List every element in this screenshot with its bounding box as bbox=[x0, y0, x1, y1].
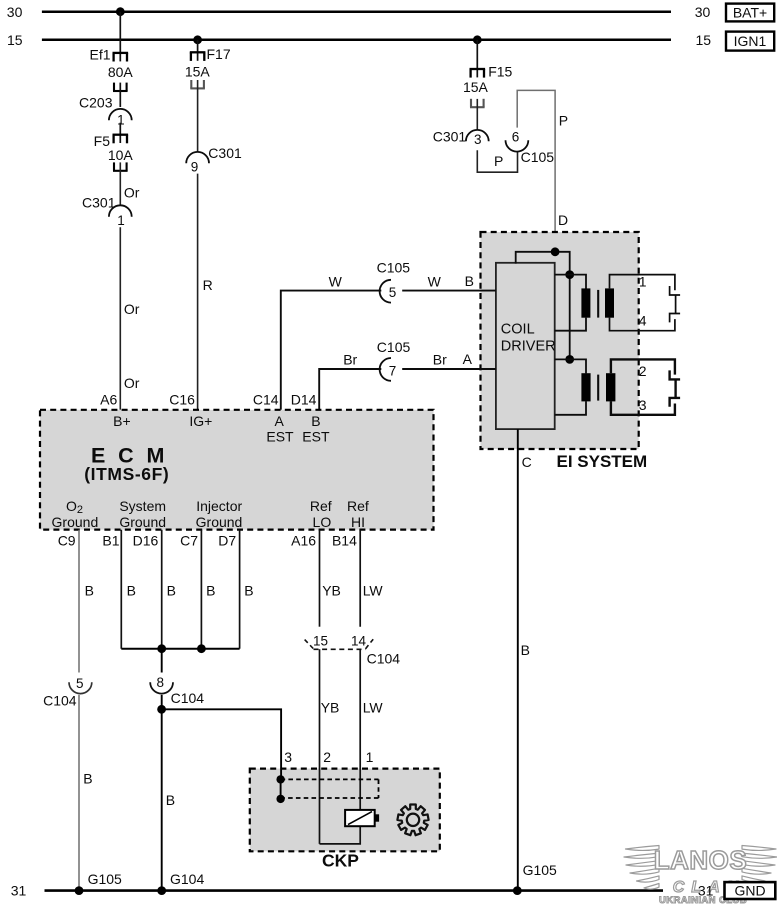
svg-text:3: 3 bbox=[639, 397, 647, 413]
svg-text:A: A bbox=[463, 351, 473, 367]
svg-text:LW: LW bbox=[363, 583, 384, 599]
svg-text:B14: B14 bbox=[332, 532, 357, 548]
svg-text:EST: EST bbox=[266, 429, 294, 445]
svg-text:B: B bbox=[167, 583, 176, 599]
node bus15-F15 junction bbox=[473, 35, 482, 44]
svg-text:9: 9 bbox=[191, 159, 199, 174]
svg-text:Br: Br bbox=[433, 352, 447, 368]
wire ground gather bus bbox=[121, 648, 239, 650]
svg-text:YB: YB bbox=[322, 583, 341, 599]
svg-text:YB: YB bbox=[321, 699, 340, 715]
svg-text:HI: HI bbox=[351, 514, 365, 530]
wire bus15 to fuse F17 bbox=[197, 40, 199, 61]
connector C104 pin 8 bbox=[150, 682, 173, 693]
svg-text:COIL: COIL bbox=[501, 322, 535, 338]
svg-text:Ground: Ground bbox=[196, 514, 243, 530]
svg-text:Injector: Injector bbox=[196, 498, 242, 514]
wire D7 injector ground, colour B bbox=[239, 530, 241, 649]
node bus15-F17 junction bbox=[193, 35, 202, 44]
node coil2 supply junction bbox=[565, 355, 574, 364]
svg-text:15: 15 bbox=[696, 32, 712, 48]
fuse F5 10A bbox=[113, 134, 129, 136]
svg-text:A: A bbox=[275, 413, 285, 429]
svg-text:B: B bbox=[83, 771, 92, 787]
svg-text:2: 2 bbox=[323, 749, 331, 765]
svg-text:Ref: Ref bbox=[347, 498, 369, 514]
wire C7 injector ground, colour B bbox=[200, 530, 202, 649]
svg-text:31: 31 bbox=[698, 883, 714, 899]
svg-text:Ef1: Ef1 bbox=[89, 47, 110, 63]
svg-text:C105: C105 bbox=[521, 149, 555, 165]
svg-text:30: 30 bbox=[695, 4, 711, 20]
svg-text:7: 7 bbox=[389, 363, 397, 378]
svg-text:P: P bbox=[559, 113, 568, 129]
svg-text:15A: 15A bbox=[185, 64, 211, 80]
svg-text:F15: F15 bbox=[488, 64, 512, 80]
svg-text:15A: 15A bbox=[463, 79, 489, 95]
svg-text:5: 5 bbox=[389, 285, 397, 300]
svg-text:4: 4 bbox=[639, 312, 647, 328]
svg-text:15: 15 bbox=[313, 633, 328, 648]
svg-text:C301: C301 bbox=[433, 128, 467, 144]
svg-text:C104: C104 bbox=[43, 692, 77, 708]
wire coil1 secondary to spark plug 1 bbox=[610, 275, 675, 291]
node coil1 supply junction bbox=[565, 270, 574, 279]
wire B EST: ECM D14 to C105-7, colour Br bbox=[319, 369, 381, 410]
svg-text:C105: C105 bbox=[377, 259, 411, 275]
svg-text:(ITMS-6F): (ITMS-6F) bbox=[84, 464, 169, 484]
svg-text:LO: LO bbox=[313, 514, 332, 530]
svg-text:System: System bbox=[119, 498, 166, 514]
svg-text:10A: 10A bbox=[108, 147, 134, 163]
CKP inductive sensor element bbox=[345, 810, 375, 826]
ignition coil 1 secondary winding bbox=[605, 288, 614, 317]
svg-text:B: B bbox=[521, 642, 530, 658]
svg-text:31: 31 bbox=[11, 882, 27, 898]
svg-text:B: B bbox=[465, 273, 474, 289]
wire coil2 primary return to driver bbox=[555, 401, 586, 415]
node shield drain top bbox=[276, 775, 284, 783]
wire C9 O2 ground to C104-5, colour B bbox=[78, 530, 80, 673]
svg-text:C301: C301 bbox=[208, 145, 242, 161]
ignition coil 2 primary winding bbox=[581, 373, 590, 401]
wire C104-5 to ground G105, colour B bbox=[78, 695, 80, 891]
bus 30 (BAT+) bbox=[42, 10, 671, 13]
wire A EST: ECM C14 to C105-5, colour W bbox=[281, 291, 382, 410]
svg-text:C16: C16 bbox=[169, 392, 195, 408]
svg-text:C105: C105 bbox=[377, 339, 411, 355]
svg-text:1: 1 bbox=[639, 274, 647, 290]
svg-text:1: 1 bbox=[366, 749, 374, 765]
wire C104-8 to ground G104, colour B bbox=[161, 695, 163, 891]
shield around CKP signal wires bbox=[281, 778, 379, 780]
svg-text:B: B bbox=[311, 413, 320, 429]
svg-text:B1: B1 bbox=[102, 532, 119, 548]
svg-text:LANOS: LANOS bbox=[654, 845, 748, 875]
svg-text:C104: C104 bbox=[367, 650, 401, 666]
wire F15 to connector C301 pin 3 bbox=[476, 99, 478, 130]
wire C301-3 to C105-6, colour P bbox=[477, 150, 517, 172]
svg-text:G105: G105 bbox=[88, 871, 122, 887]
connector C105 pin 6 bbox=[506, 140, 529, 151]
wire spark plug 3 return to coil2 secondary bbox=[611, 401, 675, 415]
svg-text:15: 15 bbox=[7, 32, 23, 48]
svg-text:C301: C301 bbox=[82, 195, 116, 211]
fuse Ef1 80A bbox=[113, 52, 129, 54]
GND terminal box bbox=[725, 882, 776, 899]
CKP sensor box bbox=[250, 769, 440, 852]
wire spark plug 4 return to coil1 secondary bbox=[610, 318, 675, 331]
svg-text:A16: A16 bbox=[291, 532, 316, 548]
wire C105-7 to coil driver pin A, colour Br bbox=[402, 368, 496, 370]
ignition coil 2 secondary winding bbox=[606, 373, 615, 401]
node D16 gather junction bbox=[157, 644, 166, 653]
svg-text:R: R bbox=[203, 277, 213, 293]
svg-text:G104: G104 bbox=[170, 871, 204, 887]
svg-text:80A: 80A bbox=[108, 64, 134, 80]
svg-text:Br: Br bbox=[343, 352, 357, 368]
svg-text:EST: EST bbox=[302, 429, 330, 445]
wire F17 to connector C301 pin 9 bbox=[197, 80, 199, 152]
spark plug cyl 1 gap bbox=[670, 286, 681, 295]
wire C105-5 to coil driver pin B, colour W bbox=[402, 290, 496, 292]
wire coil1 primary feed bbox=[555, 275, 586, 289]
svg-text:C104: C104 bbox=[171, 690, 205, 706]
wire D16 system ground, colour B bbox=[161, 530, 163, 649]
svg-text:8: 8 bbox=[156, 675, 164, 690]
svg-text:D7: D7 bbox=[218, 532, 236, 548]
svg-text:C: C bbox=[522, 454, 532, 470]
wire A16 Ref LO to C104-15, colour YB bbox=[319, 530, 321, 627]
svg-text:14: 14 bbox=[351, 633, 367, 648]
svg-text:Ground: Ground bbox=[119, 514, 166, 530]
wire C203 to fuse F5 bbox=[119, 123, 121, 143]
ignition coil 1 primary winding bbox=[581, 288, 590, 317]
BAT+ terminal box bbox=[726, 4, 774, 22]
svg-text:EI SYSTEM: EI SYSTEM bbox=[557, 452, 648, 471]
svg-text:W: W bbox=[428, 273, 442, 289]
ground G104 bbox=[157, 886, 166, 895]
wire supply rail to coil 2 bbox=[569, 275, 571, 360]
wire B1 system ground, colour B bbox=[120, 530, 122, 649]
node bus30-Ef1 junction bbox=[116, 7, 125, 16]
wire C301-1 to ECM pin A6, colour Or bbox=[119, 227, 121, 410]
svg-text:C14: C14 bbox=[253, 392, 279, 408]
wire F5 to connector C301 pin 1, colour Or bbox=[119, 162, 121, 205]
coil 1 core bbox=[597, 290, 599, 318]
wire C104-14 to CKP pin 1, colour LW bbox=[359, 649, 361, 810]
bus 31 (GND) bbox=[45, 889, 664, 892]
svg-text:C203: C203 bbox=[79, 95, 113, 111]
bus 15 (IGN1) bbox=[42, 39, 671, 42]
wire coil driver pin C to ground G105 bbox=[517, 429, 519, 890]
fuse F17 15A bbox=[190, 51, 206, 53]
svg-text:W: W bbox=[329, 273, 343, 289]
wire bus15 to fuse F15 bbox=[476, 40, 478, 78]
wire coil2 primary feed bbox=[555, 359, 586, 373]
svg-text:1: 1 bbox=[117, 213, 125, 228]
svg-text:LW: LW bbox=[363, 699, 384, 715]
fuse F15 15A bbox=[470, 68, 486, 70]
svg-text:B: B bbox=[127, 583, 136, 599]
connector C104 pins 15/14 (in-line) bbox=[314, 648, 366, 650]
node G105 right junction bbox=[513, 886, 522, 895]
svg-text:B: B bbox=[166, 792, 175, 808]
svg-text:3: 3 bbox=[474, 132, 482, 147]
EI SYSTEM module box bbox=[481, 232, 639, 449]
svg-text:D: D bbox=[558, 212, 568, 228]
svg-text:G105: G105 bbox=[523, 862, 557, 878]
ground G105 bbox=[75, 886, 84, 895]
svg-text:3: 3 bbox=[284, 749, 292, 765]
wire C105-6 up-over-down to EI SYSTEM pin D, colour P bbox=[517, 90, 555, 251]
svg-text:P: P bbox=[494, 153, 503, 169]
wire bus30 to fuse Ef1 (crosses bus 15) bbox=[119, 12, 121, 62]
coil driver U1 bbox=[496, 263, 555, 429]
svg-text:CKP: CKP bbox=[322, 851, 359, 871]
svg-text:B: B bbox=[244, 583, 253, 599]
decorative watermark bbox=[624, 846, 777, 890]
svg-text:IG+: IG+ bbox=[189, 413, 212, 429]
wire coil driver top feed bbox=[516, 252, 570, 275]
svg-text:Ref: Ref bbox=[310, 498, 332, 514]
coil 2 core bbox=[597, 375, 599, 401]
svg-text:B: B bbox=[206, 583, 215, 599]
spark plug cyl 3 gap bbox=[670, 398, 681, 407]
spark plug cyl 4 gap bbox=[670, 314, 681, 323]
wire branch to CKP pin 3 bbox=[162, 709, 282, 779]
node D junction bbox=[551, 247, 560, 256]
CKP reluctor gear bbox=[397, 805, 428, 836]
wire C104-15 to CKP pin 2, colour YB bbox=[319, 649, 321, 844]
wire gather bus to C104-8 bbox=[161, 648, 163, 673]
wire coil1 primary return to driver bbox=[555, 318, 586, 331]
wire C301-9 to ECM pin C16, colour R bbox=[197, 174, 199, 410]
wire CKP pin 2 to sensor coil bottom bbox=[320, 826, 361, 844]
svg-text:A6: A6 bbox=[100, 392, 117, 408]
svg-text:C9: C9 bbox=[58, 532, 76, 548]
svg-text:Or: Or bbox=[124, 375, 140, 391]
ECM module box (ITMS-6F) bbox=[40, 410, 434, 530]
svg-text:B+: B+ bbox=[113, 413, 131, 429]
svg-text:B: B bbox=[85, 583, 94, 599]
wire shield drain link bbox=[280, 779, 282, 799]
node C7 gather junction bbox=[197, 644, 206, 653]
svg-text:6: 6 bbox=[512, 129, 520, 144]
svg-text:Or: Or bbox=[124, 185, 140, 201]
svg-text:D16: D16 bbox=[133, 532, 159, 548]
wire B14 Ref HI to C104-14, colour LW bbox=[359, 530, 361, 627]
svg-text:30: 30 bbox=[7, 4, 23, 20]
svg-text:5: 5 bbox=[76, 676, 84, 691]
IGN1 terminal box bbox=[726, 32, 774, 51]
svg-text:Or: Or bbox=[124, 301, 140, 317]
svg-text:F17: F17 bbox=[207, 46, 231, 62]
node CKP shield branch junction bbox=[157, 705, 166, 714]
svg-text:C7: C7 bbox=[180, 532, 198, 548]
svg-text:2: 2 bbox=[639, 363, 647, 379]
svg-text:IGN1: IGN1 bbox=[734, 33, 767, 49]
svg-text:D14: D14 bbox=[291, 392, 317, 408]
wire coil2 secondary to spark plug 2 bbox=[611, 359, 675, 374]
svg-text:Ground: Ground bbox=[52, 514, 99, 530]
connector C104 pin 5 bbox=[69, 682, 92, 693]
svg-text:GND: GND bbox=[734, 883, 765, 899]
node shield drain bottom bbox=[276, 795, 284, 803]
svg-text:DRIVER: DRIVER bbox=[501, 339, 556, 355]
spark plug cyl 2 gap bbox=[670, 370, 681, 379]
svg-text:BAT+: BAT+ bbox=[733, 4, 767, 20]
